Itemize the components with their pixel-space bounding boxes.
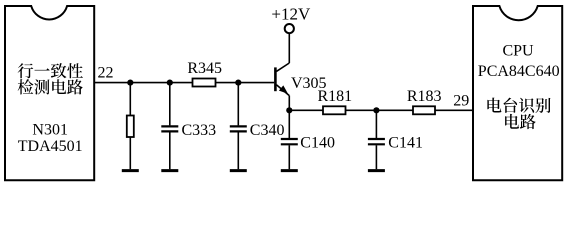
svg-text:C141: C141 bbox=[388, 134, 423, 151]
svg-text:C340: C340 bbox=[250, 122, 285, 139]
svg-text:R345: R345 bbox=[187, 60, 222, 77]
svg-text:R181: R181 bbox=[317, 88, 352, 105]
svg-text:CPU: CPU bbox=[502, 43, 534, 60]
svg-text:TDA4501: TDA4501 bbox=[18, 138, 83, 155]
svg-text:+12V: +12V bbox=[271, 5, 311, 24]
svg-text:N301: N301 bbox=[32, 122, 68, 139]
svg-text:C333: C333 bbox=[182, 122, 217, 139]
svg-text:C140: C140 bbox=[300, 134, 335, 151]
svg-text:PCA84C640: PCA84C640 bbox=[478, 63, 560, 80]
svg-text:29: 29 bbox=[453, 93, 469, 110]
svg-text:22: 22 bbox=[98, 65, 114, 82]
svg-text:R183: R183 bbox=[407, 88, 442, 105]
